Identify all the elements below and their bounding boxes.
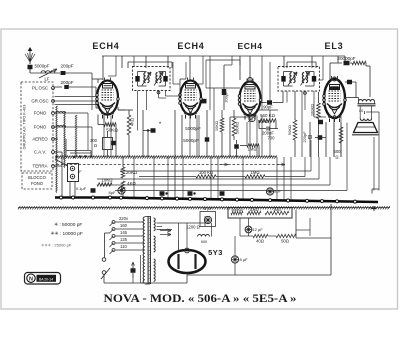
svg-text:160: 160 [120,223,128,228]
svg-text:145: 145 [120,230,128,235]
svg-text:1MΩ: 1MΩ [251,170,260,175]
svg-text:5000pF: 5000pF [183,138,199,143]
svg-text:0.1μF: 0.1μF [76,186,87,191]
svg-text:8μF: 8μF [109,190,117,195]
svg-text:40Ω: 40Ω [256,239,264,244]
svg-text:110: 110 [120,244,127,249]
svg-text:220v: 220v [119,216,129,221]
svg-text:12 μF: 12 μF [252,227,263,232]
svg-text:1200 Ω: 1200 Ω [186,225,200,230]
svg-text:50Ω: 50Ω [281,239,289,244]
svg-text:560 KΩ: 560 KΩ [260,113,275,118]
svg-text:20KΩ: 20KΩ [126,170,138,175]
svg-text:ECH4: ECH4 [237,41,262,51]
svg-text:C.A.V.: C.A.V. [34,150,46,155]
svg-text:NOVA - MOD. « 506-A » « 5E5-A: NOVA - MOD. « 506-A » « 5E5-A » [104,291,297,305]
svg-text:20000pF: 20000pF [337,56,355,61]
svg-text:50KΩ: 50KΩ [287,125,292,135]
svg-text:50KΩ: 50KΩ [106,128,118,133]
svg-text:Ω: Ω [94,143,97,148]
svg-text:FONO: FONO [34,125,47,130]
svg-text:AEREO: AEREO [32,137,48,142]
svg-text:FONO: FONO [34,111,47,116]
svg-text:200pF: 200pF [60,64,73,69]
svg-text:90pF: 90pF [263,105,273,110]
svg-text:BA 20-14: BA 20-14 [39,277,53,281]
svg-text:N: N [29,277,33,283]
svg-text:5000pF: 5000pF [185,126,201,131]
svg-text:TERRA: TERRA [33,164,48,169]
svg-text:10KΩ: 10KΩ [214,121,219,131]
svg-text:1MΩ: 1MΩ [273,208,281,212]
svg-text:600: 600 [201,240,207,244]
svg-text:1MΩ: 1MΩ [248,147,257,152]
svg-text:FONO: FONO [31,181,44,186]
svg-text:100 KΩ: 100 KΩ [199,170,213,175]
svg-text:5000pF: 5000pF [35,64,50,69]
svg-text:500KΩ: 500KΩ [231,208,242,212]
svg-text:✳ : 50000 pF: ✳ : 50000 pF [54,222,82,228]
svg-text:ECH4: ECH4 [177,41,204,51]
svg-text:✳✳ : 10000 pF: ✳✳ : 10000 pF [51,231,83,237]
svg-text:4KΩ: 4KΩ [127,181,136,186]
svg-text:EL3: EL3 [325,41,344,51]
svg-text:LF: LF [45,77,50,82]
svg-text:8 μF: 8 μF [204,206,213,211]
svg-text:8μF: 8μF [274,189,282,194]
svg-text:10KΩ: 10KΩ [249,208,258,212]
svg-text:8 μF: 8 μF [239,257,248,262]
svg-text:5Y3: 5Y3 [208,248,223,257]
svg-text:ECH4: ECH4 [92,41,119,51]
svg-text:500KΩ: 500KΩ [235,122,240,134]
svg-text:GRUPPO A.F. TIPO F-403: GRUPPO A.F. TIPO F-403 [23,105,27,150]
svg-text:220pF: 220pF [302,131,307,143]
svg-text:4KΩ: 4KΩ [130,118,135,126]
svg-text:10: 10 [359,108,364,113]
svg-text:200pF: 200pF [60,80,73,85]
svg-text:700: 700 [268,136,276,141]
svg-text:125: 125 [120,237,128,242]
svg-text:500: 500 [334,149,342,154]
svg-text:BLOCCO: BLOCCO [28,175,46,180]
svg-text:GR.OSC: GR.OSC [31,99,48,104]
svg-text:100KΩ: 100KΩ [310,104,315,116]
svg-text:✳✳✳ : 25000 pF: ✳✳✳ : 25000 pF [41,243,72,248]
svg-text:10KΩ: 10KΩ [101,178,113,183]
svg-text:Ω: Ω [335,155,338,160]
svg-text:PL.OSC: PL.OSC [32,86,48,91]
